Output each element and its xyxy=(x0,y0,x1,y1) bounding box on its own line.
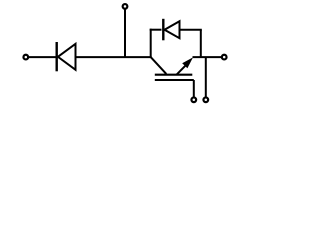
wire (loop top-left) xyxy=(150,29,162,31)
wire (gate down lead) xyxy=(193,80,195,97)
diode D1 cathode bar xyxy=(56,42,58,71)
wire (collector rail) xyxy=(76,56,152,58)
wire (loop left vertical) xyxy=(150,29,152,57)
terminal T2 (top collector) xyxy=(123,4,128,9)
diode D2 triangle xyxy=(165,21,180,38)
diode D2 cathode bar xyxy=(162,19,164,41)
transistor Q1 emitter arrowhead xyxy=(182,57,193,68)
wire (emitter rail) xyxy=(193,56,222,58)
terminal T4 (gate, bottom left) xyxy=(191,97,196,102)
wire (loop top-right) xyxy=(180,29,202,31)
terminal T1 (left input) xyxy=(23,55,28,60)
wire xyxy=(124,10,126,58)
transistor Q1 emitter lead xyxy=(177,65,187,75)
terminal T3 (right emitter) xyxy=(222,55,227,60)
transistor Q1 channel bar xyxy=(155,74,193,76)
terminal T5 (aux emitter, bottom right) xyxy=(203,97,208,102)
wire xyxy=(29,56,56,58)
wire (aux emitter lead) xyxy=(205,57,207,97)
diode D1 triangle xyxy=(58,44,76,70)
wire (loop right vertical) xyxy=(200,30,202,57)
transistor Q1 collector lead xyxy=(151,57,167,74)
transistor Q1 gate bar xyxy=(155,79,194,81)
